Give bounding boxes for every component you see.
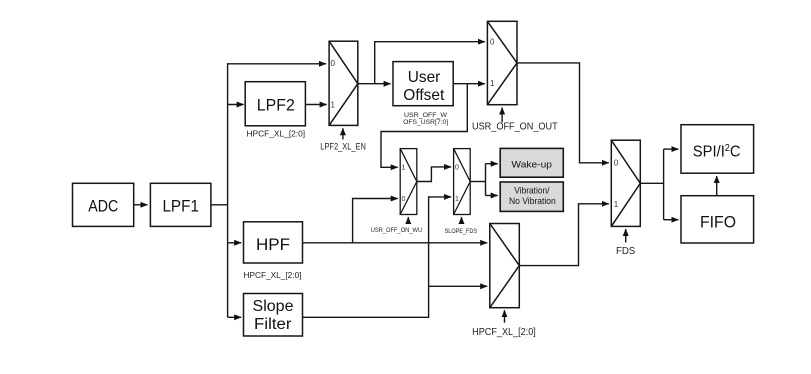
svg-text:Vibration/: Vibration/	[514, 185, 550, 195]
block User Offset	[393, 62, 453, 106]
wire LPF1 output to trunk node	[211, 204, 228, 206]
mux M4 SLOPE_FDS select	[454, 149, 471, 215]
mux M6 FDS select	[611, 140, 640, 226]
mux M3 USR_OFF_ON_WU select	[400, 149, 417, 215]
wire branch vertical for SPI and FIFO	[663, 149, 665, 220]
svg-text:0: 0	[614, 159, 619, 168]
mux M2 USR_OFF_ON_OUT select	[487, 21, 517, 104]
wire Slope Filter output up to mux M4 input 1	[303, 197, 452, 317]
wire trunk vertical	[228, 64, 326, 317]
wire into Vibration block	[486, 195, 498, 197]
svg-text:HPCF_XL_[2:0]: HPCF_XL_[2:0]	[472, 327, 536, 338]
svg-text:FDS: FDS	[616, 246, 636, 257]
wire mux M4 output to branch node	[470, 181, 485, 183]
svg-text:No Vibration: No Vibration	[509, 196, 556, 206]
svg-text:USR_OFF_ON_WU: USR_OFF_ON_WU	[371, 227, 423, 234]
block LPF2	[245, 82, 305, 126]
svg-text:1: 1	[614, 200, 619, 209]
block FIFO	[681, 196, 754, 243]
wire mux M3 output to mux M4 input 0	[417, 167, 451, 182]
wire FIFO to SPI	[716, 176, 718, 196]
wire trunk to Slope Filter	[228, 316, 242, 318]
wire trunk to HPF	[228, 242, 242, 244]
svg-text:HPCF_XL_[2:0]: HPCF_XL_[2:0]	[247, 129, 306, 138]
svg-text:Offset: Offset	[403, 87, 445, 104]
svg-text:ADC: ADC	[88, 198, 118, 216]
block Slope Filter	[244, 294, 303, 337]
wire branch from M1 output up to mux M2 input 0	[375, 42, 485, 84]
svg-text:Slope: Slope	[253, 298, 294, 315]
wire HPF output to mux M5 upper input	[303, 242, 488, 244]
wire mux M2 output right and down to mux M6 input 0	[517, 63, 609, 163]
block LPF1	[150, 183, 211, 226]
svg-text:LPF1: LPF1	[162, 198, 199, 216]
wire branch from User Offset output down-left to mux M3 input 1	[381, 84, 467, 168]
wire mux M1 output to User Offset	[358, 83, 391, 85]
svg-text:SLOPE_FDS: SLOPE_FDS	[445, 228, 478, 235]
wire select HPCF_XL into mux M5	[504, 310, 506, 323]
svg-text:SPI/I2C: SPI/I2C	[693, 143, 741, 160]
svg-text:HPF: HPF	[256, 236, 290, 254]
svg-text:LPF2_XL_EN: LPF2_XL_EN	[320, 141, 366, 151]
wire mux M5 output right and up to mux M6 input 1	[519, 204, 609, 266]
svg-text:1: 1	[455, 196, 459, 203]
block ADC	[73, 183, 134, 226]
wire select USR_OFF_ON_OUT into mux M2	[501, 108, 503, 123]
wire select LPF2_XL_EN into mux M1	[342, 128, 344, 139]
svg-text:0: 0	[331, 59, 336, 68]
block Wake-up	[500, 148, 563, 177]
wire mux M6 output to branch node	[640, 182, 663, 184]
wire branch from HPF output up to mux M3 input 0	[353, 199, 398, 243]
wire into SPI block	[664, 148, 679, 150]
wire LPF2 to mux M1 input 1	[305, 104, 326, 106]
svg-text:1: 1	[490, 79, 495, 88]
svg-text:Wake-up: Wake-up	[511, 159, 552, 170]
svg-text:0: 0	[490, 37, 495, 46]
block SPI/I2C	[681, 125, 754, 174]
block Vibration / No Vibration	[500, 182, 563, 211]
wire branch vertical for wake-up outputs	[485, 164, 487, 196]
svg-text:USR_OFF_W: USR_OFF_W	[404, 112, 448, 119]
wire into Wake-up block	[486, 163, 498, 165]
mux M1 LPF2 select	[329, 41, 358, 125]
svg-text:Filter: Filter	[254, 316, 292, 333]
svg-text:USR_OFF_ON_OUT: USR_OFF_ON_OUT	[472, 122, 558, 133]
wire ADC to LPF1	[134, 204, 148, 206]
wire select USR_OFF_ON_WU into mux M3	[407, 217, 409, 224]
svg-text:1: 1	[331, 100, 336, 109]
svg-text:FIFO: FIFO	[700, 213, 736, 231]
wire select SLOPE_FDS into mux M4	[461, 217, 463, 224]
wire select FDS into mux M6	[625, 229, 627, 243]
wire into FIFO block	[664, 219, 679, 221]
svg-text:0: 0	[455, 165, 459, 172]
wire branch from Slope line to mux M5 lower input	[429, 285, 488, 287]
wire trunk to LPF2	[228, 104, 244, 106]
svg-text:OFS_USR[7:0]: OFS_USR[7:0]	[403, 119, 448, 126]
svg-text:LPF2: LPF2	[257, 97, 295, 115]
wire trunk to mux M1 input 0 arrowhead	[318, 63, 326, 65]
mux M5 HPCF select	[490, 224, 520, 308]
svg-text:0: 0	[402, 196, 406, 203]
svg-text:User: User	[408, 69, 441, 86]
wire User Offset output to mux M2 input 1	[453, 83, 485, 85]
svg-text:1: 1	[402, 165, 406, 172]
block HPF	[244, 222, 303, 263]
svg-text:HPCF_XL_[2:0]: HPCF_XL_[2:0]	[244, 271, 302, 280]
